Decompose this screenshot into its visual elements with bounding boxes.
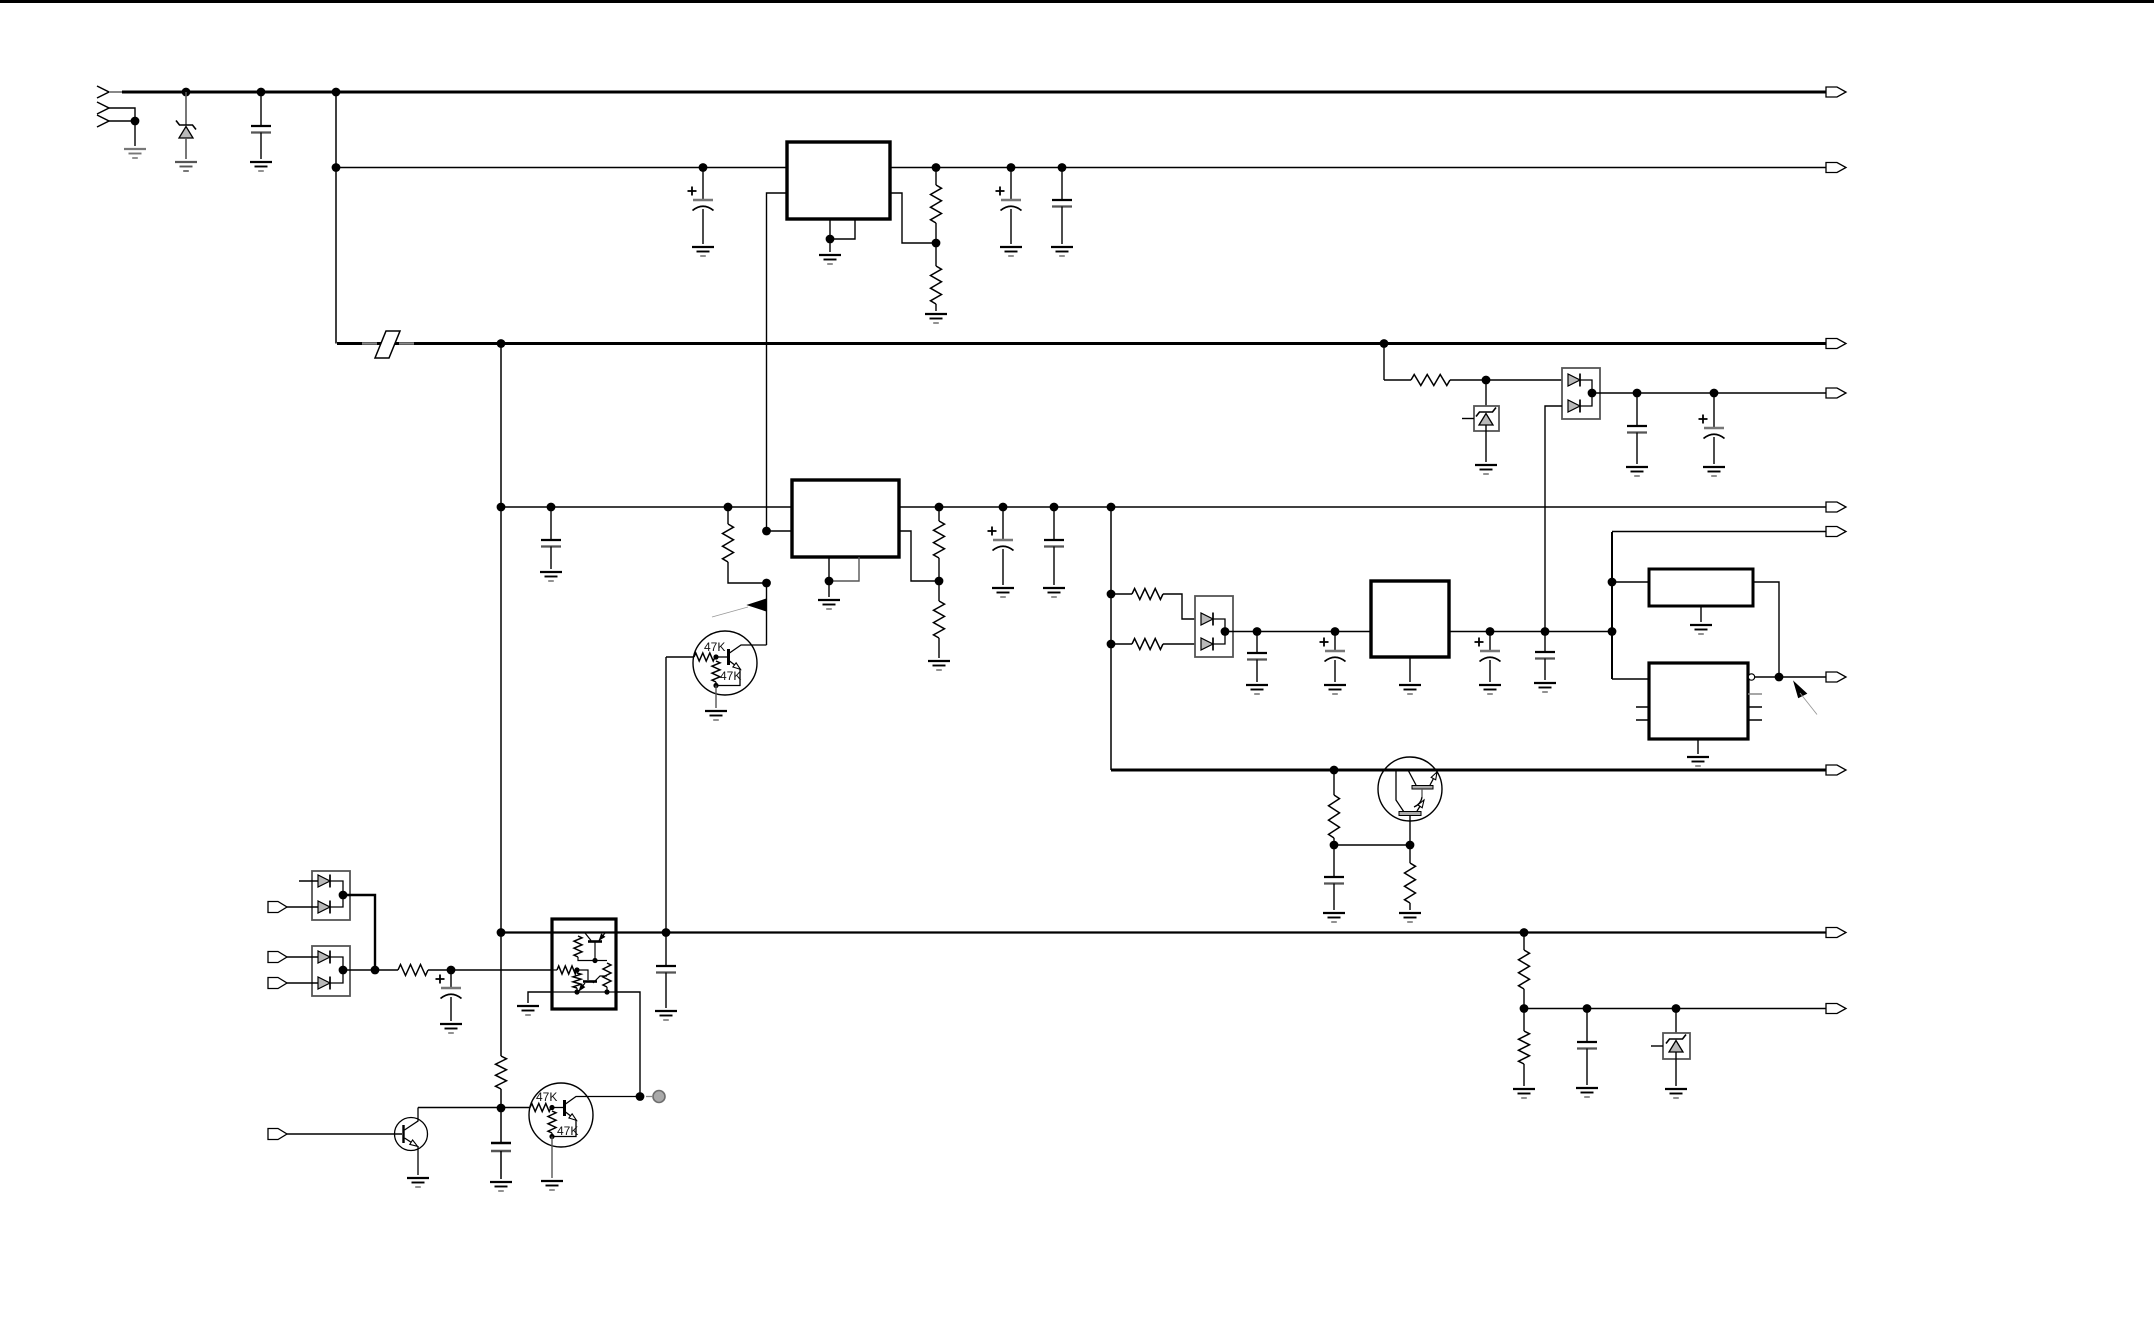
resistor U3 Rd <box>603 963 611 987</box>
wire Q3 collector <box>566 1097 641 1105</box>
wire B2 gnd <box>1697 739 1699 754</box>
capacitor C1 <box>260 92 262 126</box>
node Q3 emitter junction <box>549 1134 554 1139</box>
node rail6-C16 <box>1541 627 1550 636</box>
IC B2 module <box>1649 663 1748 739</box>
wire Q1 input down bus <box>665 657 667 933</box>
node x501-y1108 <box>497 1104 506 1113</box>
ground C9 <box>1043 587 1065 589</box>
zener diode D7 <box>1666 1035 1686 1044</box>
wire Q2 emitter <box>405 1138 418 1146</box>
ground U3 <box>517 1005 539 1007</box>
capacitor C6 electrolytic <box>1713 393 1715 428</box>
capacitor C12 electrolytic <box>450 970 452 988</box>
resistor U3 Rc <box>573 973 581 988</box>
node Q3 collector pad node <box>636 1092 645 1101</box>
resistor R10 <box>1132 639 1163 650</box>
wire D4 anode <box>1485 426 1487 463</box>
node rail5-C9 <box>1050 503 1059 512</box>
resistor R7 <box>496 1056 507 1089</box>
node U3 c <box>574 989 579 994</box>
ground B1 <box>1690 624 1712 626</box>
wire VIN rail (top) <box>122 91 1832 94</box>
ground Q3 <box>541 1180 563 1182</box>
wire U1 gnd lead <box>829 239 831 252</box>
diode D6b <box>318 977 330 989</box>
resistor Q1 R47K pulldown <box>712 661 720 682</box>
svg-text:47K: 47K <box>704 640 725 654</box>
node Q4 bottom <box>1406 841 1415 850</box>
ground C17 <box>1323 912 1345 914</box>
node rail10-C18 <box>1583 1004 1592 1013</box>
capacitor C7 <box>550 507 552 540</box>
wire D1 cathode <box>185 92 187 125</box>
wire U2 gnd pin left <box>828 557 830 581</box>
ground shield <box>124 148 146 150</box>
wire U3 bottom rail <box>552 991 616 993</box>
wire Q1 to ground <box>715 686 717 709</box>
node U3 a <box>592 958 597 963</box>
svg-text:47K: 47K <box>720 669 741 683</box>
capacitor C17 <box>1333 845 1335 877</box>
wire node to D3 upper <box>1486 379 1562 381</box>
wire D1 anode <box>185 138 187 159</box>
ground C4 <box>1051 246 1073 248</box>
wire U3 mid <box>595 960 607 962</box>
node rail3 junction x501 <box>497 339 506 348</box>
wire U3 input pin <box>552 969 557 971</box>
fuse F1 <box>375 331 400 358</box>
transistor Q2 circle <box>395 1118 428 1151</box>
terminal y531 out <box>1826 527 1846 537</box>
annotation arrow 1 <box>748 599 767 611</box>
node rail5-R5 <box>935 503 944 512</box>
wire rail 2 <box>336 167 1832 169</box>
pin B2 right stub2 <box>1748 706 1762 708</box>
pin B2 right stub1 <box>1748 693 1762 695</box>
wire Q3 base to bar <box>552 1107 563 1109</box>
ground C11 <box>490 1181 512 1183</box>
wire U3 Qa collector <box>594 943 596 961</box>
terminal VIN out <box>1826 87 1846 97</box>
wire R8 to C12 <box>428 969 552 971</box>
resistor R6 <box>938 581 940 601</box>
wire D3 lower input <box>1545 406 1562 631</box>
wire Q1 emitter <box>730 661 741 669</box>
wire U1 gnd pin right <box>830 219 855 239</box>
node rail2 start <box>332 163 341 172</box>
transistor Q2 base bar <box>402 1125 404 1143</box>
node U2 gnd junction <box>825 577 834 586</box>
wire Q1 collector <box>730 645 767 653</box>
wire R3 to node <box>1450 379 1486 381</box>
wire R11 to Q4 <box>1334 844 1410 846</box>
wire D7 anode <box>1675 1053 1677 1087</box>
wire shield to ground <box>134 121 136 146</box>
wire D4 lead <box>1485 380 1487 406</box>
node B2 out <box>1775 673 1784 682</box>
transistor U3 Qb base bar <box>583 980 597 983</box>
wire rail 4 <box>1592 392 1832 394</box>
resistor R11 <box>1333 770 1335 795</box>
node rail8-R11 <box>1330 766 1339 775</box>
IC U1 voltage regulator <box>787 142 890 219</box>
transistor Q1 base bar <box>727 649 730 665</box>
resistor R13 <box>1523 933 1525 951</box>
capacitor C16 <box>1544 632 1546 653</box>
transistor Q4 circle <box>1378 757 1442 821</box>
capacitor C14 electrolytic <box>1334 632 1336 652</box>
capacitor C9 <box>1053 507 1055 540</box>
node x1111-R9 <box>1107 590 1116 599</box>
resistor R2 <box>935 243 937 266</box>
node rail5-busdown <box>1107 503 1116 512</box>
resistor Q1 R47K base <box>694 653 715 661</box>
ground C6 <box>1703 466 1725 468</box>
node U3 d <box>604 989 609 994</box>
wire B2 left pin <box>1612 678 1649 680</box>
wire U2 out pin <box>899 531 939 581</box>
resistor U3 Ra <box>574 936 582 957</box>
wire to R3 <box>1384 379 1411 381</box>
diode D6a <box>318 951 330 963</box>
wire bus x501 <box>500 344 502 933</box>
transistor U3 Qa emitter wires <box>585 933 591 941</box>
resistor R1 <box>935 168 937 186</box>
wire B1 gnd <box>1700 606 1702 622</box>
node x767-U2pin <box>762 527 771 536</box>
transistor Q3 base bar <box>563 1100 566 1116</box>
node Q3 base <box>549 1105 554 1110</box>
wire D2 join <box>1213 619 1225 644</box>
wire input to D5b <box>287 906 318 908</box>
capacitor C5 <box>1636 393 1638 426</box>
capacitor C11 plates <box>491 1142 511 1144</box>
node rail1-branch <box>332 88 341 97</box>
wire to terminal y531 <box>1612 531 1832 533</box>
wire D5 join <box>330 881 343 907</box>
diode D2b <box>1201 638 1213 650</box>
capacitor C10 <box>665 933 667 967</box>
node D2 out <box>1221 627 1230 636</box>
resistor R3 <box>1411 375 1450 386</box>
pad P1 <box>653 1091 665 1103</box>
wire y1108 collector run <box>418 1107 530 1109</box>
terminal input SW2 <box>268 978 287 989</box>
wire Q3 emitter <box>566 1112 577 1120</box>
wire rail 3 <box>337 342 1832 345</box>
zener D4 box <box>1474 406 1499 431</box>
wire x501 to C11 <box>500 1108 502 1143</box>
svg-text:47K: 47K <box>536 1090 557 1104</box>
wire D5a stub <box>299 880 318 882</box>
wire B2 out <box>1755 676 1832 678</box>
annotation cursor arrow <box>1794 682 1807 698</box>
node D6 out <box>339 966 348 975</box>
ground C1 <box>250 161 272 163</box>
top border bar <box>0 0 2154 3</box>
terminal input IR <box>268 902 287 913</box>
wire rail 9 <box>501 931 1832 933</box>
wire U1 pin2 feedback <box>767 193 788 531</box>
node rail10-D7 <box>1672 1004 1681 1013</box>
wire D6 join <box>330 957 343 983</box>
node rail6-x1612 <box>1608 627 1617 636</box>
ground D1 <box>175 161 197 163</box>
wire pin3 to ground node <box>109 120 135 122</box>
ground C13 <box>1246 684 1268 686</box>
wire bus x1111 <box>1110 507 1112 770</box>
terminal rail9 out <box>1826 928 1846 938</box>
wire rail1 down branch <box>335 92 337 344</box>
pin B2 left stub1 <box>1636 706 1649 708</box>
diode box D5 <box>312 871 350 920</box>
diode box D2 <box>1195 596 1233 657</box>
wire chevron1 stub <box>109 91 126 93</box>
transistor Q3 circle <box>529 1083 593 1147</box>
node R11 bottom <box>1330 841 1339 850</box>
wire U3 left gnd <box>528 992 552 1003</box>
terminal rail10 out <box>1826 1004 1846 1014</box>
connector J1 pin 2 chevron <box>97 102 109 114</box>
ground R12 <box>1399 912 1421 914</box>
wire Q1 base to bar <box>716 656 727 658</box>
wire Q2 base <box>287 1133 402 1135</box>
diode box D6 <box>312 946 350 996</box>
node Q1 emitter junction <box>713 683 718 688</box>
zener D7 box <box>1663 1033 1690 1059</box>
resistor R8 <box>398 965 428 976</box>
node rail9-R13 <box>1520 928 1529 937</box>
ground C8 <box>992 587 1014 589</box>
ground U2 <box>818 599 840 601</box>
wire U3 Qb emitter <box>579 983 585 991</box>
wire Q2 collector <box>405 1108 419 1131</box>
node rail2-R1 <box>932 163 941 172</box>
ground C7 <box>540 571 562 573</box>
capacitor C13 <box>1256 632 1258 654</box>
wire Q1 base input <box>666 656 694 658</box>
node R4-x767 <box>762 579 771 588</box>
node Q1 base <box>713 654 718 659</box>
node rail2-C2 <box>699 163 708 172</box>
wire U2 gnd lead <box>828 581 830 597</box>
resistor R4 <box>727 507 729 524</box>
ground R14 <box>1513 1088 1535 1090</box>
node y507-C7 <box>547 503 556 512</box>
wire Q4 down <box>1409 816 1411 846</box>
node rail4-C6 <box>1710 389 1719 398</box>
transistor Q4 internals <box>1396 770 1404 812</box>
node y507-R4 <box>724 503 733 512</box>
wire bus x1612 <box>1611 532 1613 679</box>
wire fuse flank left <box>362 342 377 344</box>
pin B2 left stub2 <box>1636 719 1649 721</box>
ground C18 <box>1576 1087 1598 1089</box>
pin B2 output bubble <box>1748 674 1754 680</box>
wire U2 gnd pin right <box>829 557 859 581</box>
node rail5-C8 <box>999 503 1008 512</box>
node rail6-C13 <box>1253 627 1262 636</box>
wire U3 Qb collector <box>593 976 607 983</box>
diode D2a <box>1201 613 1213 625</box>
terminal rail3 out <box>1826 339 1846 349</box>
node x501-y507 <box>497 503 506 512</box>
wire U2 pin2 stub <box>767 530 793 532</box>
node rail1-C1 <box>257 88 266 97</box>
resistor R9 <box>1132 589 1163 600</box>
diode D5a <box>318 875 330 887</box>
resistor R14 <box>1523 1009 1525 1032</box>
node rail9 x501 <box>497 928 506 937</box>
connector J1 pin 1 chevron <box>97 86 109 98</box>
wire y507 <box>501 506 792 508</box>
wire 1384 down <box>1383 344 1385 381</box>
ground Q1 <box>705 710 727 712</box>
wire U1 out pin4 <box>890 193 936 243</box>
node R13-R14 <box>1520 1004 1529 1013</box>
ground C12 <box>440 1023 462 1025</box>
svg-text:47K: 47K <box>557 1124 578 1138</box>
zener diode D4 <box>1476 408 1496 417</box>
diode D5b <box>318 901 330 913</box>
ground R6 <box>928 660 950 662</box>
ground C2 <box>692 246 714 248</box>
ground C14 <box>1324 684 1346 686</box>
resistor U3 Rb <box>557 966 577 974</box>
ground C5 <box>1626 466 1648 468</box>
transistor U3 Qa base bar <box>588 940 602 943</box>
node rail4-C5 <box>1633 389 1642 398</box>
node D5-D6 join <box>371 966 380 975</box>
connector J1 pin 3 chevron <box>97 115 109 127</box>
transistor Q1 circle <box>693 631 757 695</box>
node rail3 junction x1384 <box>1380 339 1389 348</box>
resistor Q3 R47K pulldown <box>548 1111 556 1133</box>
ground C3 <box>1000 246 1022 248</box>
diode box D3 <box>1562 368 1600 419</box>
node rail6-C14 <box>1331 627 1340 636</box>
wire rail5 <box>899 506 1832 508</box>
wire D7 lead <box>1675 1009 1677 1040</box>
IC U4 dc-dc module <box>1371 581 1449 657</box>
node R3-D4 <box>1482 376 1491 385</box>
wire D4 stub <box>1462 418 1474 420</box>
wire rail 10 <box>1524 1008 1832 1010</box>
terminal input SW1 <box>268 952 287 963</box>
wire B1 right pin <box>1753 582 1779 677</box>
node U1 gnd junction <box>826 235 835 244</box>
ground D7 <box>1665 1088 1687 1090</box>
node U3 b <box>574 967 579 972</box>
capacitor C8 electrolytic <box>1002 507 1004 540</box>
wire D6 out <box>343 969 398 971</box>
node x1612-B1 <box>1608 578 1617 587</box>
zener diode D1 <box>176 121 196 130</box>
diode D3a <box>1568 374 1580 386</box>
terminal rail5 out <box>1826 502 1846 512</box>
IC U2 voltage regulator <box>792 480 899 557</box>
terminal rail2 out <box>1826 163 1846 173</box>
terminal input base <box>268 1129 287 1140</box>
ground U1 <box>819 254 841 256</box>
node R5-R6 junction <box>935 577 944 586</box>
capacitor C3 electrolytic <box>1010 168 1012 201</box>
terminal rail8 out <box>1826 765 1846 775</box>
resistor R5 <box>938 507 940 521</box>
node rail9 x666 <box>662 928 671 937</box>
wire D5 out thick <box>343 895 375 970</box>
resistor Q3 R47K base <box>530 1104 551 1112</box>
capacitor C15 electrolytic <box>1489 632 1491 652</box>
node rail2-C4 <box>1058 163 1067 172</box>
ground U4 <box>1399 684 1421 686</box>
wire rail6 <box>1225 631 1612 633</box>
ground C10 <box>655 1010 677 1012</box>
node R8-C12 <box>447 966 456 975</box>
ground Q2 <box>407 1177 429 1179</box>
capacitor C18 <box>1586 1009 1588 1043</box>
node D5 out <box>339 891 348 900</box>
wire B1 left pin <box>1612 581 1649 583</box>
wire U3 output <box>616 992 640 1097</box>
node R1-R2 junction <box>932 239 941 248</box>
IC U3 transistor array box <box>552 919 616 1009</box>
wire U4 gnd <box>1409 657 1411 682</box>
wire pin2 to ground node <box>109 108 135 121</box>
wire x501 below rail9 <box>500 933 502 1057</box>
resistor R12 <box>1409 845 1411 863</box>
node rail1-D1 <box>182 88 191 97</box>
wire U3 base link <box>577 970 588 980</box>
capacitor C4 <box>1061 168 1063 201</box>
wire P1 link <box>646 1096 653 1098</box>
wire Q3 to ground <box>551 1137 553 1179</box>
node rail6-C15 <box>1486 627 1495 636</box>
wire input to D6b <box>287 982 318 984</box>
terminal B2 out <box>1826 672 1846 682</box>
wire D3 cathodes join <box>1580 380 1592 406</box>
ground C15 <box>1479 684 1501 686</box>
IC B1 module <box>1649 569 1753 606</box>
node rail2-C3 <box>1007 163 1016 172</box>
wire input to D6a <box>287 956 318 958</box>
capacitor C2 electrolytic <box>702 168 704 201</box>
ground B2 <box>1687 756 1709 758</box>
wire U1 gnd pin left <box>829 219 831 239</box>
wire rail 8 <box>1111 769 1832 772</box>
terminal rail4 out <box>1826 388 1846 398</box>
pin B2 right stub3 <box>1748 719 1762 721</box>
ground D4 <box>1475 464 1497 466</box>
wire D7 stub <box>1651 1045 1663 1047</box>
node D3 out <box>1588 389 1597 398</box>
diode D3b <box>1568 400 1580 412</box>
node J1 shield junction <box>131 117 140 126</box>
ground C16 <box>1534 682 1556 684</box>
node x1111-R10 <box>1107 640 1116 649</box>
ground R2 <box>925 313 947 315</box>
wire fuse flank right <box>399 342 414 344</box>
